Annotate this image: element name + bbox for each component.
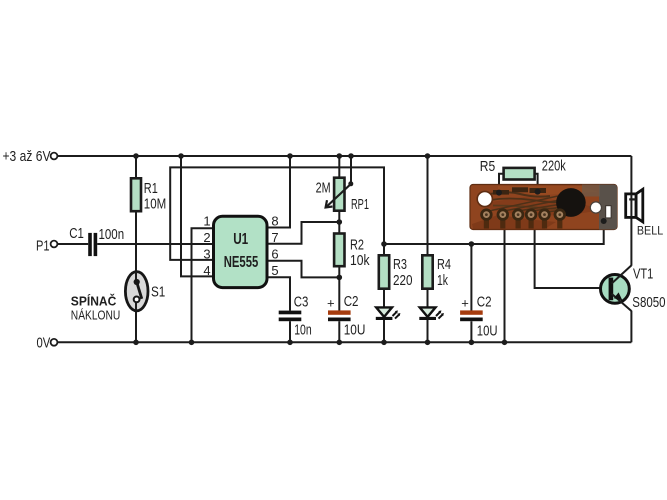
svg-text:10M: 10M xyxy=(144,196,166,212)
wire pin1 to ground xyxy=(192,228,214,342)
capacitor C2 second (electrolytic) xyxy=(460,310,483,314)
svg-text:C2: C2 xyxy=(477,294,492,310)
svg-text:1k: 1k xyxy=(437,273,448,289)
LED D1 (under R3) xyxy=(376,307,401,318)
svg-text:+: + xyxy=(327,296,335,311)
svg-text:P1: P1 xyxy=(36,239,50,255)
svg-text:220: 220 xyxy=(393,273,413,289)
resistor R3 xyxy=(379,255,389,288)
svg-text:VT1: VT1 xyxy=(633,266,653,282)
resistor R2 xyxy=(334,234,344,267)
svg-text:RP1: RP1 xyxy=(351,197,369,213)
module output pin (white) xyxy=(606,206,611,218)
wire C3 to ground xyxy=(289,321,291,342)
wire R5 left lead xyxy=(499,174,504,193)
terminal P1 xyxy=(51,241,58,248)
wire pin3 output xyxy=(170,167,384,260)
svg-text:5: 5 xyxy=(271,263,278,278)
capacitor C2 first (electrolytic) xyxy=(328,310,351,314)
svg-text:NE555: NE555 xyxy=(224,254,259,271)
wire pin5 to C3 xyxy=(267,277,290,310)
resistor R5 xyxy=(504,168,535,180)
svg-text:SPÍNAČ: SPÍNAČ xyxy=(71,294,117,309)
wire R5 right lead xyxy=(535,174,538,192)
svg-text:220k: 220k xyxy=(542,159,567,175)
potentiometer RP1 wiper arrow xyxy=(326,184,351,208)
terminal 0V xyxy=(51,339,58,346)
sound module board xyxy=(470,185,617,234)
wire pin6 to R2 bottom xyxy=(267,261,339,278)
svg-text:C1: C1 xyxy=(69,226,84,242)
transistor VT1 xyxy=(601,265,632,311)
module solder pads xyxy=(480,208,566,220)
svg-text:6: 6 xyxy=(271,247,278,262)
svg-text:R2: R2 xyxy=(350,238,364,254)
svg-text:4: 4 xyxy=(203,263,210,278)
svg-text:NÁKLONU: NÁKLONU xyxy=(71,307,121,322)
IC U1 NE555 xyxy=(214,216,268,287)
wire RP1 wiper feed xyxy=(350,156,352,184)
svg-text:S1: S1 xyxy=(151,284,165,300)
capacitor C3 xyxy=(279,311,302,322)
capacitor C1 xyxy=(88,233,97,256)
wire pin4 to +V xyxy=(181,156,214,276)
wire R2 to C2a xyxy=(338,266,340,310)
wire top +V rail xyxy=(58,155,632,157)
module COB chip blob xyxy=(556,188,586,217)
svg-text:2: 2 xyxy=(203,230,210,245)
svg-text:3: 3 xyxy=(203,247,210,262)
tilt switch S1 xyxy=(125,272,148,311)
svg-text:+: + xyxy=(461,296,469,311)
svg-text:10k: 10k xyxy=(350,253,370,269)
wire R1/S1 column xyxy=(135,156,137,342)
wire bottom 0V rail xyxy=(58,341,632,343)
svg-text:1: 1 xyxy=(203,214,210,229)
wire output rail to module xyxy=(384,221,604,244)
wire bell feed from +V xyxy=(630,156,632,266)
speaker BELL xyxy=(626,189,643,222)
resistor R1 xyxy=(131,178,141,211)
wire pin7 to RP1 xyxy=(267,222,339,244)
wire VT1 emitter to ground xyxy=(630,311,632,343)
LED D2 (under R4) xyxy=(419,307,444,318)
resistor R4 xyxy=(422,255,432,288)
svg-text:S8050: S8050 xyxy=(632,295,665,311)
wire module pad to ground xyxy=(504,215,506,342)
svg-text:R3: R3 xyxy=(393,257,407,273)
svg-text:0V: 0V xyxy=(37,335,51,351)
svg-text:R1: R1 xyxy=(144,181,158,197)
svg-text:C2: C2 xyxy=(344,294,359,310)
wire C2a to ground xyxy=(338,321,340,342)
wire pin8 to +V xyxy=(267,156,290,228)
wire R3 column xyxy=(383,244,385,342)
svg-text:2M: 2M xyxy=(316,180,331,196)
svg-text:C3: C3 xyxy=(294,294,309,310)
svg-text:+3 až 6V: +3 až 6V xyxy=(3,149,51,165)
wire module pad to VT1 base xyxy=(535,215,610,288)
svg-text:100n: 100n xyxy=(99,227,125,243)
module mounting hole right xyxy=(590,202,601,213)
svg-text:R4: R4 xyxy=(437,257,451,273)
svg-text:BELL: BELL xyxy=(637,224,663,238)
potentiometer RP1 body xyxy=(334,178,344,211)
svg-text:R5: R5 xyxy=(480,159,495,175)
module mounting hole left xyxy=(477,191,492,206)
wire R4 column xyxy=(427,156,429,342)
svg-text:8: 8 xyxy=(271,214,278,229)
svg-text:U1: U1 xyxy=(233,231,248,248)
wire RP1 column xyxy=(338,156,340,234)
svg-text:10U: 10U xyxy=(344,323,366,339)
svg-text:10n: 10n xyxy=(294,323,312,339)
svg-text:10U: 10U xyxy=(477,324,498,340)
terminal +V xyxy=(51,153,58,160)
wire C2b column xyxy=(470,244,472,342)
svg-text:7: 7 xyxy=(271,230,278,245)
wire P1 to pin2 xyxy=(58,243,214,245)
